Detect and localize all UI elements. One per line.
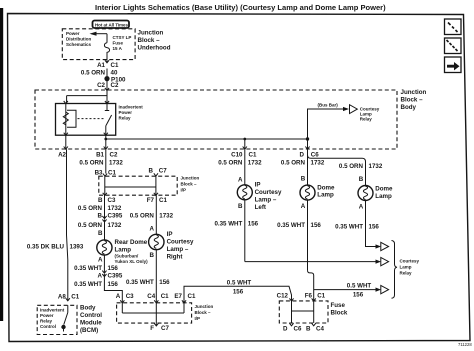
svg-text:Relay: Relay (400, 271, 413, 276)
dome lamp 1 (300, 185, 315, 200)
IP courtesy lamp right (149, 234, 164, 249)
in-line connector A/C395 (102, 271, 106, 277)
svg-text:156: 156 (108, 281, 119, 288)
svg-text:A: A (116, 293, 121, 300)
svg-text:Relay: Relay (40, 319, 53, 324)
icon button 2 (print) (445, 38, 462, 54)
svg-text:E7: E7 (174, 293, 182, 300)
svg-text:0.5 ORN: 0.5 ORN (78, 222, 103, 229)
svg-text:156: 156 (108, 265, 119, 272)
pin arrow A1 (105, 60, 109, 63)
svg-text:Power: Power (119, 110, 133, 115)
svg-text:Power: Power (40, 313, 54, 318)
wire bus down to C10/C1 pin (244, 139, 246, 149)
svg-text:C1: C1 (159, 197, 167, 204)
svg-text:B: B (306, 326, 311, 333)
courtesy lamp relay triangle 2 (381, 257, 389, 265)
svg-text:A: A (301, 203, 306, 210)
svg-text:C1: C1 (188, 293, 196, 300)
rear dome lamp (97, 240, 112, 255)
svg-text:Block –: Block – (195, 310, 212, 315)
pin arrows lower I/P top (120, 300, 186, 303)
svg-text:156: 156 (233, 289, 244, 296)
svg-text:B3: B3 (95, 170, 103, 177)
relay coil-switch dashed link (78, 118, 105, 120)
relay coil wire (65, 104, 67, 136)
wire A1 to splice (106, 69, 108, 77)
pin arrows fuse block bottom (289, 323, 315, 326)
svg-text:156: 156 (159, 279, 170, 286)
svg-text:0.5 ORN: 0.5 ORN (79, 160, 104, 167)
svg-text:0.5 WHT: 0.5 WHT (347, 283, 372, 290)
icon button 1 (locate) (445, 19, 462, 35)
branch wire to dome lamp 2 (308, 155, 366, 187)
svg-text:156: 156 (311, 222, 322, 229)
pin arrow B/C7 (154, 173, 158, 176)
svg-text:C1: C1 (71, 294, 79, 301)
arrowhead into upper relay triangle (343, 107, 349, 111)
bus bar riser to courtesy lamp relay (308, 109, 346, 139)
svg-text:1732: 1732 (159, 213, 173, 220)
svg-text:Lamp: Lamp (400, 265, 412, 270)
svg-text:C2: C2 (110, 152, 118, 159)
wire A2 down to BCM (67, 149, 68, 301)
svg-text:C1: C1 (108, 170, 116, 177)
svg-text:Inadvertent: Inadvertent (119, 105, 144, 110)
svg-text:0.35 WHT: 0.35 WHT (335, 224, 363, 231)
fuse block internal wires (292, 301, 314, 323)
svg-text:Body: Body (80, 305, 96, 312)
svg-text:Courtesy: Courtesy (167, 239, 194, 246)
svg-text:C7: C7 (161, 325, 169, 332)
pin arrow C12 (289, 298, 293, 301)
svg-text:0.35 WHT: 0.35 WHT (74, 265, 102, 272)
svg-text:Control: Control (40, 324, 56, 329)
wire dome lamp 2 down to triangle 1 (366, 201, 379, 247)
svg-text:Block –: Block – (181, 182, 198, 187)
svg-text:0.5 ORN: 0.5 ORN (130, 213, 155, 220)
svg-text:0.5 ORN: 0.5 ORN (339, 163, 364, 170)
svg-text:B1: B1 (96, 152, 104, 159)
svg-text:1732: 1732 (108, 222, 122, 229)
wire fuse output to A1/C1 (106, 60, 108, 63)
dome lamp 2 (358, 186, 373, 201)
pin arrow B3 into I/P junction block (103, 174, 107, 177)
svg-text:I/P: I/P (195, 316, 201, 321)
svg-text:C2: C2 (97, 82, 105, 89)
svg-text:B: B (149, 168, 154, 175)
svg-text:F: F (150, 325, 154, 332)
fuse CTSY LP element (104, 34, 109, 60)
relay switch fixed contact (105, 104, 109, 111)
pin arrow F6 (312, 298, 316, 301)
svg-text:C6: C6 (311, 152, 319, 159)
svg-text:Block –: Block – (138, 37, 161, 44)
wire C2 feed inside body block (67, 91, 107, 104)
svg-text:1732: 1732 (311, 160, 325, 167)
svg-text:C12: C12 (277, 293, 289, 300)
svg-text:A2: A2 (58, 152, 66, 159)
branch to courtesy lamp relay triangle 3 (314, 289, 378, 291)
svg-text:A: A (98, 257, 103, 264)
relay switch output wire (105, 126, 107, 136)
relay pin arrows bottom (64, 133, 108, 136)
svg-text:C1: C1 (249, 152, 257, 159)
wire bus down to D/C6 pin (307, 139, 309, 149)
svg-text:Lamp: Lamp (375, 193, 392, 200)
pin arrow A8 (66, 298, 70, 301)
I/P block internal wires (105, 176, 156, 195)
svg-text:B: B (98, 230, 103, 237)
wire D/C6 down to dome lamp 1 (307, 149, 309, 185)
svg-text:IP: IP (255, 182, 261, 189)
wire F7/C1 down to IP courtesy right (155, 195, 157, 234)
svg-text:0.5 WHT: 0.5 WHT (227, 280, 252, 287)
svg-text:Inadvertent: Inadvertent (40, 308, 65, 313)
svg-text:15 A: 15 A (113, 46, 123, 51)
upper courtesy lamp relay triangle (350, 105, 358, 114)
svg-text:Junction: Junction (181, 176, 200, 181)
svg-text:Underhood: Underhood (138, 45, 171, 52)
courtesy lamp relay triangle 3 (381, 285, 389, 293)
fuse block (dashed box) (279, 301, 328, 323)
svg-text:0.5 ORN: 0.5 ORN (218, 160, 243, 167)
svg-text:Fuse: Fuse (331, 302, 346, 309)
svg-text:0.5 ORN: 0.5 ORN (81, 70, 106, 77)
svg-text:C4: C4 (147, 293, 155, 300)
svg-text:C1: C1 (161, 293, 169, 300)
svg-text:1732: 1732 (109, 160, 123, 167)
svg-text:C3: C3 (108, 197, 116, 204)
svg-text:Lamp –: Lamp – (167, 246, 189, 253)
wire rear dome down to C395 (103, 255, 105, 273)
junction block underhood (dashed box) (62, 29, 135, 60)
svg-text:Fuse: Fuse (113, 41, 124, 46)
body control module (dashed box) (37, 305, 77, 334)
svg-text:Block: Block (331, 310, 348, 317)
svg-text:B: B (98, 213, 103, 220)
wire C395 to rear dome lamp (104, 220, 106, 241)
icon button 3 (next arrow) (445, 57, 462, 73)
junction dot bus at C10 (243, 138, 246, 141)
svg-text:156: 156 (248, 221, 259, 228)
Hot at All Times banner (93, 21, 130, 29)
wire rear dome to A/C3 pin (104, 274, 122, 303)
wire splice to C2 (106, 81, 108, 91)
svg-text:156: 156 (369, 224, 380, 231)
relay top pin arrows (64, 101, 109, 104)
arrowhead into triangle 3 (376, 288, 382, 292)
splice P100 (104, 76, 109, 81)
svg-text:(Suburban/: (Suburban/ (115, 254, 139, 259)
relay coil frame (67, 110, 76, 127)
svg-text:0.35 WHT: 0.35 WHT (126, 279, 154, 286)
svg-text:Lamp: Lamp (115, 247, 132, 254)
wire ip courtesy right down to C4/C1 (155, 250, 157, 303)
svg-text:C4: C4 (316, 326, 324, 333)
svg-text:Power: Power (66, 31, 80, 36)
svg-text:Dome: Dome (317, 185, 335, 192)
svg-text:1732: 1732 (108, 205, 122, 212)
svg-text:Left: Left (255, 204, 266, 211)
svg-text:B: B (301, 176, 306, 183)
svg-text:D: D (283, 326, 288, 333)
svg-text:Courtesy: Courtesy (255, 189, 282, 196)
svg-text:B: B (150, 252, 155, 259)
svg-text:I/P: I/P (181, 188, 187, 193)
svg-text:A: A (98, 273, 103, 280)
svg-text:B: B (98, 197, 103, 204)
arrow to power distribution (92, 33, 108, 35)
wire B/C3 down to C395 (104, 195, 106, 218)
svg-text:1393: 1393 (70, 244, 84, 251)
svg-text:Relay: Relay (119, 116, 132, 121)
wire switch output down to bus (105, 135, 107, 139)
svg-text:1732: 1732 (248, 160, 262, 167)
BCM driver contact dot (61, 325, 65, 329)
IP courtesy lamp left (237, 185, 252, 200)
svg-text:Junction: Junction (195, 304, 214, 309)
pin arrows at body block bottom edge (64, 147, 310, 150)
svg-text:F7: F7 (147, 197, 155, 204)
wire dome lamp 1 down (307, 200, 309, 270)
relay coil zigzag (63, 112, 68, 125)
wire ip courtesy left to triangle 2 (245, 261, 378, 263)
wire bus down to B1/C2 pin (105, 139, 107, 149)
svg-text:C2: C2 (111, 82, 119, 89)
svg-text:Distribution: Distribution (66, 37, 91, 42)
courtesy lamp relay triangle 1 (381, 242, 389, 250)
svg-text:C1: C1 (317, 293, 325, 300)
svg-text:40: 40 (111, 70, 118, 77)
svg-text:C3: C3 (126, 293, 134, 300)
junction dot bus at B1 (104, 138, 107, 141)
svg-text:C7: C7 (159, 168, 167, 175)
svg-text:B: B (359, 176, 364, 183)
pin label C10/C1 wire continues: IP courtesy left column (244, 149, 246, 185)
relay switch arm (106, 115, 112, 126)
svg-text:0.35 DK BLU: 0.35 DK BLU (27, 244, 65, 251)
svg-text:711228: 711228 (458, 342, 472, 347)
pin arrows I/P block bottom (103, 193, 158, 196)
svg-text:A: A (150, 226, 155, 233)
svg-text:F6: F6 (305, 293, 313, 300)
svg-text:Lamp –: Lamp – (255, 197, 277, 204)
wire ip courtesy left down (244, 200, 246, 262)
svg-text:0.5 ORN: 0.5 ORN (281, 160, 306, 167)
svg-text:Schematics: Schematics (66, 42, 92, 47)
svg-text:Body: Body (401, 104, 417, 111)
svg-text:Dome: Dome (375, 186, 393, 193)
svg-text:0.35 WHT: 0.35 WHT (277, 222, 305, 229)
svg-text:CTSY LP: CTSY LP (113, 35, 132, 40)
wire dome1 to F6/C1 (308, 270, 314, 301)
svg-text:0.35 WHT: 0.35 WHT (74, 281, 102, 288)
svg-text:A8: A8 (58, 294, 66, 301)
svg-text:D: D (300, 152, 305, 159)
svg-text:(BCM): (BCM) (80, 327, 98, 334)
svg-text:Block –: Block – (401, 97, 424, 104)
pin arrow F/C7 bottom (154, 323, 158, 326)
svg-text:Relay: Relay (360, 117, 373, 122)
arrowhead into triangle 1 (376, 244, 382, 248)
junction block I/P upper (dashed box) (99, 176, 177, 195)
svg-text:0.5 ORN: 0.5 ORN (78, 205, 103, 212)
svg-text:A1: A1 (97, 62, 105, 69)
svg-text:Module: Module (80, 320, 102, 327)
wire E7/C1 riser to fuse block C12 (184, 286, 292, 303)
pin arrow C2 into body junction block (105, 88, 109, 91)
arrowhead into triangle 2 (376, 260, 382, 264)
svg-text:C6: C6 (294, 326, 302, 333)
BCM driver switch (64, 305, 68, 324)
svg-text:Junction: Junction (138, 30, 164, 37)
svg-text:Right: Right (167, 254, 183, 261)
svg-text:0.35 WHT: 0.35 WHT (214, 221, 242, 228)
scan edge black bar (0, 8, 3, 321)
svg-text:C395: C395 (108, 213, 123, 220)
svg-text:Yukon XL Only): Yukon XL Only) (115, 259, 149, 264)
svg-text:Interior Lights Schematics (Ba: Interior Lights Schematics (Base Utility… (95, 3, 386, 12)
wire B1/C2 down to B3/C1 (105, 149, 107, 173)
svg-text:Courtesy: Courtesy (400, 259, 420, 264)
svg-text:Hot at All Times: Hot at All Times (95, 22, 128, 27)
svg-text:Junction: Junction (401, 89, 427, 96)
svg-text:C10: C10 (231, 152, 243, 159)
svg-text:Rear Dome: Rear Dome (115, 239, 148, 246)
svg-text:C1: C1 (111, 62, 119, 69)
svg-text:B: B (238, 203, 243, 210)
junction dot bus at D (306, 137, 309, 140)
in-line connector C395 (102, 216, 106, 222)
svg-text:A: A (238, 177, 243, 184)
svg-text:Control: Control (80, 312, 102, 319)
junction block I/P lower (dashed box) (117, 303, 192, 323)
svg-text:A: A (359, 204, 364, 211)
svg-text:156: 156 (353, 292, 364, 299)
svg-text:1732: 1732 (369, 163, 383, 170)
bus bar wire (106, 138, 308, 140)
svg-text:C395: C395 (108, 273, 123, 280)
inadvertent power relay box (56, 104, 116, 136)
svg-text:IP: IP (167, 231, 173, 238)
lower I/P internal wires (122, 303, 184, 323)
svg-text:Lamp: Lamp (317, 192, 334, 199)
brace for courtesy lamp relay (392, 241, 398, 299)
junction block body (large dashed box) (35, 90, 397, 149)
wire coil output to A2 (65, 135, 67, 149)
svg-text:(Bus Bar): (Bus Bar) (318, 103, 339, 108)
